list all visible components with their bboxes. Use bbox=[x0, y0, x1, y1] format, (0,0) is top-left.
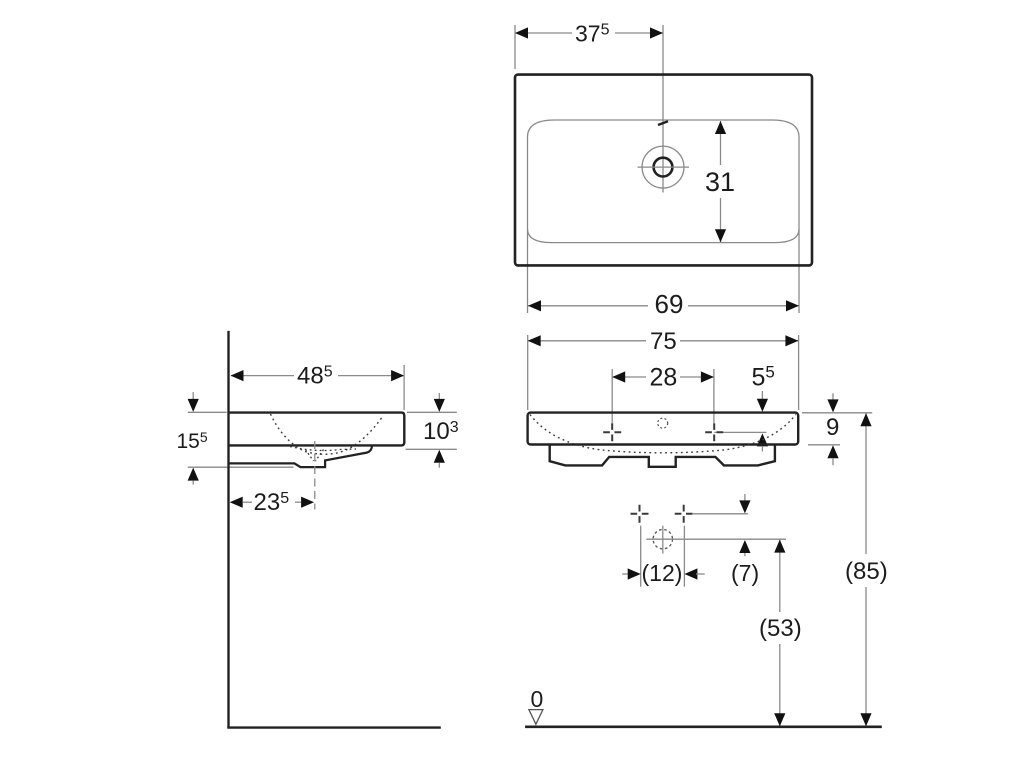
dim 9 (right of front view) bbox=[802, 412, 872, 414]
extension line left 37.5 bbox=[514, 25, 516, 69]
dim line 28 bbox=[612, 376, 646, 378]
dashed bowl contour (front) bbox=[530, 415, 796, 453]
extension lines 69 bbox=[527, 229, 529, 313]
svg-text:31: 31 bbox=[705, 167, 735, 197]
dim 15.5 (left) bbox=[188, 411, 227, 413]
dim (53) vertical bbox=[779, 540, 781, 612]
extension lines 75 bbox=[527, 335, 529, 410]
svg-text:375: 375 bbox=[575, 21, 610, 47]
floor line (side view) bbox=[227, 726, 440, 728]
svg-text:155: 155 bbox=[177, 429, 208, 453]
svg-text:(7): (7) bbox=[731, 560, 759, 586]
svg-text:9: 9 bbox=[826, 414, 839, 441]
washbasin outer rim (top view) bbox=[515, 75, 812, 266]
drain centerline dashed bbox=[314, 441, 316, 510]
svg-text:235: 235 bbox=[254, 489, 290, 516]
dashed bowl contour (side) bbox=[271, 414, 383, 454]
svg-text:(53): (53) bbox=[759, 615, 802, 642]
(7) up arrow bbox=[739, 540, 750, 553]
dim 10.3 (right of side view) bbox=[407, 411, 457, 413]
tap hole cross right (front) bbox=[705, 423, 723, 441]
svg-text:103: 103 bbox=[423, 418, 459, 445]
tap hole outer circle bbox=[642, 146, 684, 188]
extension lines (12) bbox=[640, 526, 642, 587]
svg-text:0: 0 bbox=[531, 686, 544, 712]
wall line bbox=[227, 331, 229, 728]
leader from fixing holes to (7) arrow bbox=[692, 513, 748, 515]
dim line 37.5 bbox=[515, 32, 572, 34]
leader from right tap hole + up arrow (5.5) bbox=[714, 431, 766, 433]
centerline of faucet (vertical) bbox=[662, 25, 664, 193]
tap hole inner circle bbox=[654, 158, 673, 177]
svg-text:75: 75 bbox=[650, 328, 677, 355]
overflow dashed circle bbox=[658, 418, 668, 428]
dim 23.5 bbox=[243, 501, 252, 503]
svg-text:(12): (12) bbox=[642, 560, 683, 586]
dim 31 (vertical, inside bowl) bbox=[720, 121, 722, 165]
dim (85) vertical bbox=[865, 414, 867, 554]
dim line 75 bbox=[528, 340, 646, 342]
dim 48.5 bbox=[231, 375, 294, 377]
tap hole crosshair bbox=[638, 166, 690, 168]
washbasin inner bowl (top view) bbox=[528, 120, 800, 243]
basin slab (front view) bbox=[528, 413, 799, 445]
dim (12) arrows outside bbox=[622, 573, 629, 575]
svg-text:28: 28 bbox=[650, 364, 678, 392]
svg-text:69: 69 bbox=[655, 289, 684, 319]
svg-text:485: 485 bbox=[297, 363, 333, 390]
floor line (front view) bbox=[525, 725, 882, 728]
svg-text:(85): (85) bbox=[845, 558, 888, 585]
fixing holes crosses (wall mounting) bbox=[631, 505, 649, 523]
dim line 69 bbox=[528, 305, 648, 307]
tap hole cross left (front) bbox=[603, 423, 621, 441]
tick at bowl edge / centerline crossing bbox=[658, 121, 668, 125]
basin slab (side view) bbox=[229, 413, 405, 446]
dashed drain cone (side) bbox=[290, 447, 356, 451]
apron / skirt under slab with drain boss bbox=[550, 445, 775, 467]
underside tail (side view) bbox=[229, 445, 373, 467]
siphon dashed circle bbox=[653, 530, 672, 549]
extension lines 28 bbox=[611, 369, 613, 423]
svg-text:55: 55 bbox=[752, 363, 775, 392]
